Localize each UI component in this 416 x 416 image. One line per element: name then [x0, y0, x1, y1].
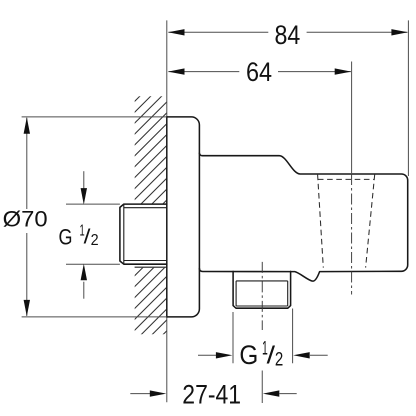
svg-text:84: 84 — [275, 20, 301, 50]
wall face line with extensions — [166, 20, 168, 402]
inlet nipple thread lines — [124, 204, 167, 264]
svg-text:G: G — [239, 340, 258, 370]
dim Ø70 extension lines — [22, 117, 167, 317]
nipple thread relief lines — [236, 281, 288, 306]
dim Ø70 — [26, 118, 28, 316]
dim G1/2 left extension lines — [66, 204, 120, 264]
inlet nipple G1/2 left — [120, 204, 167, 264]
hidden cone of shower holder — [318, 178, 375, 180]
escutcheon flange — [167, 117, 200, 317]
svg-text:64: 64 — [246, 57, 272, 87]
svg-text:G: G — [59, 224, 73, 249]
extension line right 84 — [407, 20, 409, 176]
dim 64 — [168, 71, 351, 73]
svg-text:/: / — [267, 342, 275, 370]
svg-text:2: 2 — [91, 232, 99, 249]
dim G1/2 bottom — [198, 354, 217, 356]
nipple shoulder line — [236, 280, 288, 282]
centerline holder — [351, 62, 353, 175]
svg-text:27-41: 27-41 — [182, 379, 241, 409]
svg-text:2: 2 — [275, 350, 283, 371]
svg-text:Ø70: Ø70 — [3, 207, 48, 232]
dim G1/2 bottom extension lines — [233, 309, 293, 364]
dim G1/2 left arrows — [83, 171, 85, 189]
wall hole lower edge — [135, 266, 167, 268]
dim 84 — [168, 31, 407, 33]
centerline outlet — [261, 262, 263, 330]
outlet nipple G1/2 bottom — [233, 271, 291, 308]
dim 27-41 — [130, 393, 150, 395]
body outline — [199, 153, 407, 281]
flange left edge on wall face — [166, 116, 168, 317]
